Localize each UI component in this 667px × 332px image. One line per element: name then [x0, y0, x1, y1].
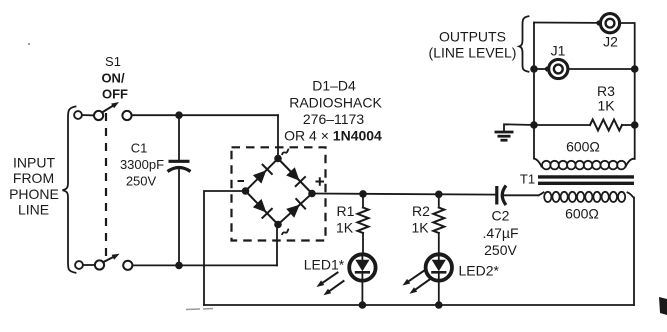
svg-text:R1: R1: [337, 203, 355, 219]
node R3 row left junction: [530, 121, 538, 129]
wire bridge left vertex to bottom rail: [204, 191, 246, 305]
LED2 emission arrows: [403, 271, 430, 294]
svg-text:OR 4 × 1N4004: OR 4 × 1N4004: [284, 128, 382, 144]
wire J1 row left: [534, 68, 548, 70]
switch S1 linkage dashed line: [105, 113, 107, 256]
wire bridge bottom lead: [276, 225, 278, 266]
node bridge top vertex: [274, 155, 282, 163]
bridge diamond wires: [246, 159, 313, 225]
diode D1: [253, 165, 272, 184]
svg-text:LED1*: LED1*: [304, 257, 345, 273]
svg-text:T1: T1: [520, 172, 535, 187]
wire output left rail: [533, 23, 535, 159]
svg-text:1K: 1K: [597, 98, 615, 114]
wire long bottom rail: [204, 304, 634, 306]
node bridge right vertex: [308, 190, 316, 198]
transformer T1 core: [538, 177, 634, 183]
capacitor C1: [168, 115, 191, 265]
node J1 row right junction: [631, 65, 639, 73]
ground: [495, 132, 514, 140]
svg-text:J1: J1: [551, 43, 566, 59]
svg-text:J2: J2: [603, 34, 618, 50]
bridge rectifier dashed box: [232, 147, 326, 240]
svg-text:LED2*: LED2*: [459, 263, 500, 279]
switch S1 labels: [101, 54, 128, 102]
svg-text:.47µF: .47µF: [482, 225, 518, 241]
node bridge bottom vertex: [274, 221, 282, 229]
wire primary right leg: [633, 198, 635, 306]
svg-text:OUTPUTS: OUTPUTS: [439, 29, 506, 45]
switch S1 top pole: [74, 102, 132, 120]
wire output top wire: [534, 22, 598, 24]
svg-text:ON/: ON/: [101, 71, 125, 86]
diode D2: [286, 167, 305, 186]
svg-text:276–1173: 276–1173: [303, 111, 364, 127]
svg-text:S1: S1: [105, 54, 121, 69]
label R1 1K: [336, 203, 355, 236]
brace input lines: [63, 107, 76, 273]
label R3 1K: [597, 83, 615, 114]
wire top rail: [132, 114, 278, 116]
label C2 value: [482, 208, 518, 259]
jack J1: [545, 59, 568, 78]
wire bottom input rail: [133, 264, 278, 266]
label C1 value: [120, 141, 164, 189]
artifact top-left speck: [28, 43, 30, 45]
LED LED1: [349, 254, 375, 305]
svg-text:250V: 250V: [484, 242, 517, 258]
label INPUT FROM PHONE LINE: [9, 155, 59, 218]
node C1 top junction: [175, 111, 183, 119]
switch S1 bottom pole: [75, 254, 132, 270]
svg-text:250V: 250V: [126, 174, 157, 189]
wire bridge top lead: [277, 115, 279, 159]
label AC tilde bottom: [282, 229, 289, 235]
svg-text:1K: 1K: [336, 220, 354, 236]
svg-text:600Ω: 600Ω: [566, 139, 600, 155]
resistor R3: [534, 120, 635, 131]
svg-text:PHONE: PHONE: [9, 186, 59, 202]
svg-text:INPUT: INPUT: [13, 155, 55, 171]
wire J2 to right rail: [620, 23, 635, 159]
label minus terminal: [238, 180, 245, 182]
svg-text:RADIOSHACK: RADIOSHACK: [289, 95, 382, 111]
label AC tilde top: [282, 149, 289, 155]
node R3 row right junction: [631, 121, 639, 129]
label R2 1K: [411, 203, 430, 236]
svg-text:D1–D4: D1–D4: [312, 78, 356, 94]
wire mid rail (+): [312, 194, 496, 195]
label D1-D4 RADIOSHACK: [284, 78, 382, 144]
svg-text:C1: C1: [131, 141, 148, 156]
svg-text:FROM: FROM: [13, 170, 54, 186]
label OUTPUTS (LINE LEVEL): [429, 29, 517, 61]
capacitor C2: [497, 186, 539, 206]
svg-text:R2: R2: [412, 203, 430, 219]
wire ground branch: [504, 124, 534, 131]
label plus terminal: [316, 177, 325, 185]
svg-text:(LINE LEVEL): (LINE LEVEL): [429, 45, 517, 61]
svg-text:3300pF: 3300pF: [120, 157, 164, 172]
diode D4: [286, 199, 305, 218]
brace output: [519, 16, 528, 71]
diode D3: [253, 199, 272, 218]
wire J1 row right: [568, 68, 635, 70]
node LED2 bottom junction: [435, 301, 443, 309]
node R2 top junction: [435, 191, 443, 199]
svg-text:600Ω: 600Ω: [565, 206, 599, 222]
LED1 emission arrows: [317, 273, 344, 296]
resistor R1: [358, 194, 369, 255]
LED LED2: [426, 254, 452, 305]
svg-text:1K: 1K: [411, 220, 429, 236]
resistor R2: [433, 194, 444, 255]
transformer T1 primary winding 600 ohm: [539, 192, 634, 202]
transformer T1 secondary winding 600 ohm: [534, 159, 634, 170]
svg-text:OFF: OFF: [102, 87, 128, 102]
node bridge left vertex: [242, 187, 250, 195]
svg-text:LINE: LINE: [18, 202, 49, 218]
node LED1 bottom junction: [359, 301, 367, 309]
node J1 row left junction: [530, 65, 538, 73]
svg-text:C2: C2: [492, 208, 510, 224]
jack J2: [596, 14, 619, 33]
artifact bottom-left dashes: [186, 309, 213, 310]
node C1 bottom junction: [175, 262, 183, 270]
artifact right edge mark: [659, 297, 667, 315]
node R1 top junction: [359, 190, 367, 198]
